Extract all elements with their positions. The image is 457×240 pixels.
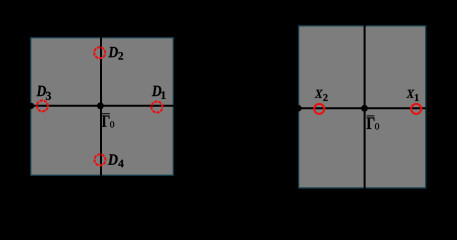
label D3 subscript 3: [46, 92, 51, 100]
right Brillouin zone rectangle: [299, 26, 426, 188]
label Gamma-bar-0 left: Gamma: [102, 116, 110, 127]
label D1 subscript 1: [161, 91, 165, 99]
label X2 subscript 2: [323, 94, 327, 101]
node X1: red solid circle: [411, 104, 421, 114]
node at left edge midpoint of left zone: [28, 103, 34, 109]
label D4 subscript 4: [118, 160, 123, 168]
node X2: red solid circle: [314, 104, 324, 114]
node D1: red dashed circle: [151, 102, 162, 113]
left Brillouin zone square: [31, 38, 174, 176]
wire: right panel horizontal line: [298, 107, 426, 109]
label D2 letter: [108, 47, 118, 57]
label Gamma-bar-0 right: Gamma: [367, 118, 375, 130]
label X1 letter: [406, 90, 414, 98]
overbar of left Gamma label: [102, 113, 110, 114]
wire: right panel vertical line: [364, 25, 366, 190]
wire: left panel horizontal line: [30, 105, 175, 107]
node Gamma-bar-0: left panel center dot: [97, 102, 104, 109]
label D1 letter: [152, 86, 162, 96]
label D4 letter: [108, 154, 118, 164]
node Gamma-bar-0: right panel center dot: [361, 105, 368, 112]
node D4: red dashed circle: [95, 154, 106, 165]
label Gamma-bar-0 left: subscript 0: [110, 121, 114, 127]
label D2 subscript 2: [118, 52, 123, 60]
overbar of right Gamma label: [367, 115, 375, 116]
label X2 letter: [315, 90, 323, 98]
label X1 subscript 1: [415, 94, 419, 101]
label Gamma-bar-0 right: subscript 0: [375, 123, 379, 129]
label D3 letter: [36, 86, 46, 96]
node D2: red dashed circle: [94, 47, 105, 58]
node D3: red dashed circle: [37, 100, 48, 111]
wire: left panel vertical line: [100, 37, 102, 176]
node at left edge midpoint of right zone: [295, 105, 301, 111]
